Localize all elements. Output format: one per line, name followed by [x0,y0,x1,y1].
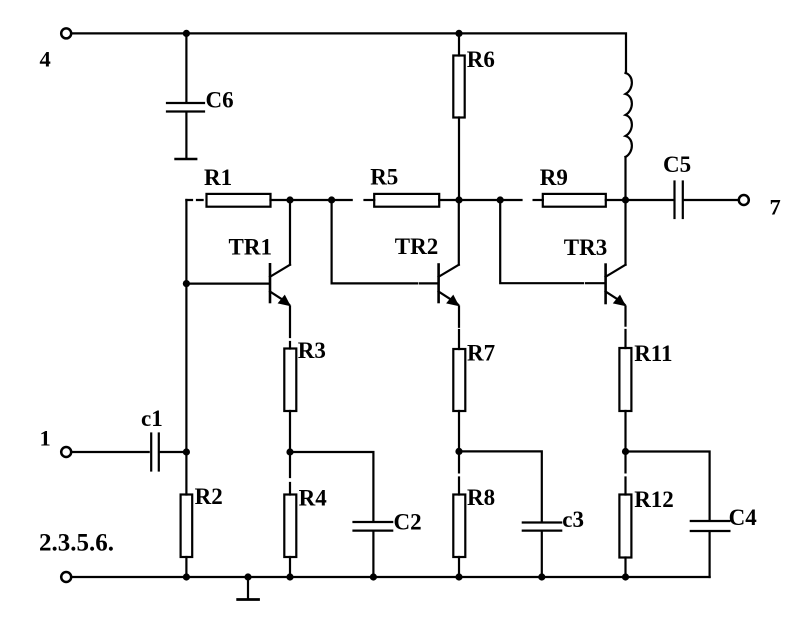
svg-text:C6: C6 [206,88,234,113]
svg-text:R3: R3 [298,338,326,363]
svg-text:C2: C2 [394,510,422,535]
svg-text:TR1: TR1 [229,235,272,260]
svg-text:R6: R6 [467,47,495,72]
svg-text:c3: c3 [562,507,584,532]
svg-text:R9: R9 [540,165,568,190]
svg-text:R4: R4 [299,485,328,510]
svg-text:TR2: TR2 [395,234,438,259]
svg-text:1: 1 [40,426,51,451]
svg-text:C4: C4 [729,505,758,530]
svg-text:4: 4 [40,47,51,72]
svg-text:R5: R5 [370,165,398,190]
svg-text:R12: R12 [634,487,674,512]
svg-text:R7: R7 [467,340,495,365]
svg-text:R11: R11 [634,341,672,366]
svg-text:R8: R8 [467,485,495,510]
svg-text:7: 7 [770,195,781,220]
svg-text:R1: R1 [204,165,232,190]
svg-text:c1: c1 [141,406,163,431]
svg-text:TR3: TR3 [564,235,607,260]
svg-text:2.3.5.6.: 2.3.5.6. [39,530,114,557]
svg-text:R2: R2 [195,484,223,509]
svg-text:C5: C5 [663,152,691,177]
